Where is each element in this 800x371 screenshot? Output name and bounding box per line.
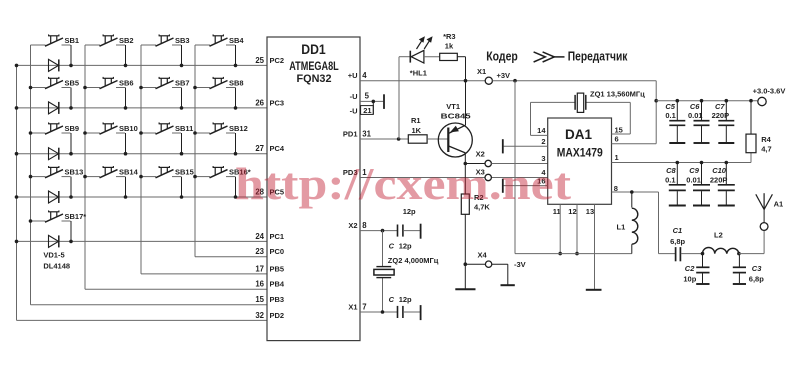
node: diode bus / row 1 junction bbox=[15, 64, 19, 68]
node: C9 on pin 1 rail bbox=[700, 161, 704, 165]
svg-text:220P: 220P bbox=[710, 175, 728, 184]
node: SB10 to row 3 junction bbox=[124, 152, 128, 156]
node: LED branch on PD1 wire bbox=[397, 137, 401, 141]
svg-text:6: 6 bbox=[615, 135, 619, 144]
pushbutton SB12 bbox=[195, 122, 248, 153]
svg-text:PD2: PD2 bbox=[270, 311, 285, 320]
svg-text:+U: +U bbox=[348, 71, 358, 80]
ground bar for -U pins bbox=[383, 94, 385, 109]
pushbutton SB6 bbox=[85, 77, 134, 108]
pin 25 PC2 labels bbox=[255, 56, 284, 65]
LED emission arrows bbox=[417, 39, 423, 49]
svg-text:X4: X4 bbox=[478, 250, 488, 259]
svg-text:1K: 1K bbox=[412, 126, 422, 135]
wire: scan row 2 (y=107.9) bbox=[17, 107, 268, 109]
svg-text:Передатчик: Передатчик bbox=[568, 49, 628, 64]
svg-text:SB7: SB7 bbox=[175, 79, 190, 88]
svg-text:+3.0-3.6V: +3.0-3.6V bbox=[753, 86, 786, 95]
svg-text:DD1: DD1 bbox=[301, 42, 326, 57]
wire: upper bypass rail bbox=[656, 100, 757, 102]
svg-text:ZQ2 4,000МГц: ZQ2 4,000МГц bbox=[388, 256, 439, 265]
label: C 12p (top) bbox=[389, 242, 412, 251]
svg-text:X2: X2 bbox=[348, 221, 357, 230]
svg-text:X1: X1 bbox=[477, 67, 486, 76]
wire: L2 to antenna bbox=[739, 231, 764, 254]
svg-text:SB5: SB5 bbox=[65, 79, 80, 88]
wire: bottom common rail bbox=[515, 253, 632, 255]
pin 24 PC1 labels bbox=[255, 232, 284, 241]
pin 32 PD2 labels bbox=[255, 311, 284, 320]
node: R3/collector branch on +U rail bbox=[464, 79, 468, 83]
node: SB2 to row 1 junction bbox=[124, 64, 128, 68]
pushbutton SB17 bbox=[31, 210, 87, 241]
node: pin 12 junction bbox=[575, 252, 579, 256]
pushbutton SB3 bbox=[141, 34, 190, 65]
node: ZQ2 bottom junction bbox=[381, 310, 385, 314]
capacitor C8 (0.1) bbox=[669, 163, 686, 205]
ground: C2 bbox=[696, 283, 709, 285]
svg-text:5: 5 bbox=[365, 92, 370, 101]
node: diode bus / row 2 junction bbox=[15, 106, 19, 110]
node: SB17 to column 1 junction bbox=[29, 219, 33, 223]
svg-text:17: 17 bbox=[255, 264, 264, 273]
svg-text:C8: C8 bbox=[666, 166, 676, 175]
resistor R1 bbox=[408, 135, 427, 143]
wire: scan row 5 (y=241.4) bbox=[17, 240, 268, 242]
wire: pin 6 to +3V rail bbox=[612, 81, 657, 144]
svg-text:12p: 12p bbox=[399, 295, 412, 304]
svg-text:SB10: SB10 bbox=[119, 124, 138, 133]
diode VD3 (DL4148) on row 3 bbox=[49, 148, 59, 160]
pin 23 PC0 labels bbox=[255, 247, 284, 256]
svg-text:15: 15 bbox=[255, 295, 264, 304]
node: C10 on pin 1 rail bbox=[725, 161, 729, 165]
node: ZQ2 top junction bbox=[381, 229, 385, 233]
resistor R2 bbox=[461, 194, 469, 214]
node: SB13 to column 1 junction bbox=[29, 175, 33, 179]
wire: pin 12 down to rail bbox=[576, 204, 578, 253]
wire: +3V rail X1 to DA1 corner bbox=[492, 80, 656, 82]
svg-text:-3V: -3V bbox=[514, 260, 526, 269]
wire: scan row 4 (y=197.0) bbox=[17, 196, 268, 198]
wire: +3V branch down to DA1 ground-side rail bbox=[514, 81, 516, 254]
ground bar at pin 2 bbox=[502, 139, 504, 153]
svg-text:R4: R4 bbox=[761, 135, 771, 144]
svg-text:PB4: PB4 bbox=[270, 280, 285, 289]
node: diode bus / row 3 junction bbox=[15, 152, 19, 156]
wire: X2 pin to load capacitor bbox=[360, 230, 397, 232]
svg-text:+3V: +3V bbox=[497, 71, 511, 80]
svg-text:C2: C2 bbox=[685, 264, 695, 273]
node: diode bus / row 4 junction bbox=[15, 195, 19, 199]
symbol: transmit arrow bbox=[534, 52, 565, 62]
diode VD5 (DL4148) on row 5 bbox=[49, 235, 59, 247]
wire: PD3 to X3 bbox=[360, 177, 485, 179]
ground: C10 bbox=[718, 205, 735, 207]
pushbutton SB10 bbox=[85, 122, 138, 153]
pushbutton SB11 bbox=[141, 122, 193, 153]
svg-text:PC3: PC3 bbox=[270, 98, 285, 107]
wire: pin 13 down to ground bbox=[594, 204, 596, 289]
wire: emitter chain down to R2 bbox=[464, 153, 466, 194]
LED *HL1 bbox=[399, 36, 440, 63]
IC DA1 MAX1479 body bbox=[548, 118, 612, 204]
ground: -3V return bbox=[501, 284, 515, 286]
node: SB11 to column 3 junction bbox=[139, 131, 143, 135]
svg-text:0.01: 0.01 bbox=[686, 175, 701, 184]
pin 17 PB5 labels bbox=[255, 264, 284, 273]
svg-text:SB1: SB1 bbox=[65, 36, 80, 45]
ground bar at pin 16 bbox=[502, 179, 504, 193]
svg-text:8: 8 bbox=[362, 221, 367, 230]
wire: X3 to DA1 pin 4 bbox=[491, 177, 547, 179]
wire: +U rail from pin 4 to X1 bbox=[360, 80, 485, 82]
resistor R4 bbox=[746, 134, 756, 153]
wire: R1 to VT1 base bbox=[427, 138, 448, 140]
svg-text:SB8: SB8 bbox=[229, 79, 244, 88]
pin 15 PB3 labels bbox=[255, 295, 284, 304]
svg-text:-U: -U bbox=[350, 107, 358, 116]
svg-text:C: C bbox=[389, 295, 395, 304]
svg-text:C: C bbox=[389, 242, 395, 251]
svg-text:VT1: VT1 bbox=[446, 102, 460, 111]
svg-text:DL4148: DL4148 bbox=[43, 262, 70, 271]
node: SB5 to column 1 junction bbox=[29, 86, 33, 90]
pushbutton SB13 bbox=[31, 166, 84, 197]
svg-text:12p: 12p bbox=[399, 242, 412, 251]
wire: X2 terminal to DA1 pin 3 bbox=[491, 163, 547, 165]
svg-text:BC845: BC845 bbox=[441, 112, 471, 121]
svg-text:PC2: PC2 bbox=[270, 56, 285, 65]
svg-text:7: 7 bbox=[362, 302, 366, 311]
svg-text:L1: L1 bbox=[617, 222, 626, 231]
svg-text:C9: C9 bbox=[689, 166, 699, 175]
ground: C9 bbox=[693, 205, 710, 207]
node: SB7 to column 3 junction bbox=[139, 86, 143, 90]
svg-text:C3: C3 bbox=[752, 264, 762, 273]
svg-text:SB9: SB9 bbox=[65, 124, 80, 133]
wire: key column 2 trunk (to PB4) bbox=[85, 45, 267, 289]
node: L1 tap on pin 8 wire bbox=[630, 190, 634, 194]
wire: X4 to -3V ground bbox=[492, 264, 508, 285]
svg-text:SB11: SB11 bbox=[175, 124, 193, 133]
node: pin 11 junction bbox=[558, 252, 562, 256]
svg-text:27: 27 bbox=[255, 144, 264, 153]
pin 7 X1 labels bbox=[348, 302, 366, 311]
wire: key column 4 trunk (to PC0) bbox=[195, 45, 267, 257]
svg-text:PC4: PC4 bbox=[270, 144, 285, 153]
svg-text:25: 25 bbox=[255, 56, 264, 65]
pushbutton SB8 bbox=[195, 77, 244, 108]
pin 1 PD3 labels bbox=[343, 168, 367, 177]
node: SB15 to row 4 junction bbox=[180, 195, 184, 199]
svg-text:4,7: 4,7 bbox=[761, 145, 771, 154]
svg-text:PD1: PD1 bbox=[343, 129, 358, 138]
svg-text:*HL1: *HL1 bbox=[410, 69, 427, 78]
wire: X4 tap to X4 terminal bbox=[465, 263, 485, 265]
wire: C1 to L2 node bbox=[681, 253, 703, 255]
svg-text:26: 26 bbox=[255, 98, 264, 107]
wire: ZQ2 vertical branch bbox=[382, 231, 384, 312]
inductor L2 bbox=[703, 248, 739, 254]
capacitor C5 (0.1) bbox=[669, 101, 685, 143]
terminal: antenna connector bbox=[760, 223, 768, 231]
svg-text:SB17*: SB17* bbox=[65, 212, 87, 221]
wire: LED branch vertical (to PD1) bbox=[398, 57, 400, 139]
node: SB14 to row 4 junction bbox=[124, 195, 128, 199]
pin 5 -U labels bbox=[350, 92, 370, 101]
diode VD1 (DL4148) on row 1 bbox=[49, 59, 59, 71]
svg-text:6,8p: 6,8p bbox=[670, 237, 685, 246]
svg-text:16: 16 bbox=[255, 280, 264, 289]
ground: pin 13 bbox=[586, 289, 602, 291]
wire: pin 11 down to rail bbox=[559, 204, 561, 253]
pin 4 +U labels bbox=[348, 71, 368, 80]
svg-text:PC1: PC1 bbox=[270, 232, 285, 241]
node: C8 on pin 1 rail bbox=[676, 161, 680, 165]
svg-text:SB6: SB6 bbox=[119, 79, 134, 88]
pushbutton SB16 bbox=[195, 166, 251, 197]
svg-text:23: 23 bbox=[255, 247, 264, 256]
wire: rail to C1 bbox=[659, 253, 676, 255]
svg-text:220P: 220P bbox=[712, 111, 730, 120]
svg-text:15: 15 bbox=[615, 126, 623, 135]
node: SB8 to row 2 junction bbox=[234, 106, 238, 110]
svg-text:A1: A1 bbox=[774, 199, 784, 208]
svg-text:L2: L2 bbox=[714, 230, 723, 239]
node: +3V branch to bottom rail bbox=[513, 79, 517, 83]
svg-text:DA1: DA1 bbox=[565, 127, 592, 142]
node: pins 5/21 tie bbox=[372, 100, 376, 104]
svg-text:X1: X1 bbox=[348, 302, 357, 311]
node: SB11 to row 3 junction bbox=[180, 152, 184, 156]
wire: X2 tap to X2 terminal bbox=[465, 163, 485, 165]
node: SB9 to row 3 junction bbox=[69, 152, 73, 156]
svg-text:14: 14 bbox=[537, 126, 546, 135]
node: bypass rail branch on +3V drop bbox=[654, 99, 658, 103]
wire: scan row 3 (y=153.7) bbox=[17, 153, 268, 155]
svg-text:VD1-5: VD1-5 bbox=[43, 251, 64, 260]
capacitor C3 (6,8p) bbox=[733, 254, 746, 284]
capacitor C9 (0.01) bbox=[693, 163, 710, 205]
svg-text:SB13: SB13 bbox=[65, 168, 84, 177]
wire: PD1 to R1 bbox=[360, 138, 408, 140]
wire: pin 15 to ZQ1 right bbox=[586, 102, 630, 134]
svg-text:C1: C1 bbox=[673, 226, 683, 235]
terminal +3.0-3.6V bbox=[758, 97, 766, 105]
node: L2 left / C2 bbox=[701, 252, 705, 256]
node: diode bus / row 5 junction bbox=[15, 240, 19, 244]
node: SB6 to row 2 junction bbox=[124, 106, 128, 110]
terminal X4 bbox=[485, 261, 491, 267]
pushbutton SB4 bbox=[195, 34, 244, 65]
diode VD4 (DL4148) on row 4 bbox=[49, 191, 59, 203]
pin 21 -U boxed label bbox=[350, 106, 374, 116]
capacitor C7 (220P) bbox=[718, 101, 734, 143]
wire: pin 1 rail to R4 bbox=[612, 153, 752, 163]
svg-text:PB3: PB3 bbox=[270, 295, 285, 304]
svg-text:-U: -U bbox=[350, 92, 358, 101]
wire: pin 14 to ZQ1 left bbox=[531, 102, 576, 135]
svg-text:0.1: 0.1 bbox=[665, 175, 675, 184]
IC DD1 ATMEGA8L body bbox=[267, 37, 360, 341]
ground bar for top 12p cap bbox=[420, 224, 422, 239]
capacitor C1 (6,8p) bbox=[676, 247, 681, 261]
svg-text:2: 2 bbox=[541, 137, 545, 146]
pin 16 PB4 labels bbox=[255, 280, 285, 289]
capacitor C10 (220P) bbox=[718, 163, 735, 205]
svg-text:FQN32: FQN32 bbox=[297, 73, 332, 85]
wire: R3 to +U rail / VT1 collector bbox=[457, 57, 465, 81]
svg-text:1: 1 bbox=[615, 153, 619, 162]
node: SB9 to column 1 junction bbox=[29, 131, 33, 135]
svg-text:PB5: PB5 bbox=[270, 264, 285, 273]
ground: C6 bbox=[694, 142, 710, 144]
svg-text:*R3: *R3 bbox=[443, 32, 456, 41]
node: SB13 to row 4 junction bbox=[69, 195, 73, 199]
svg-text:ZQ1 13,560МГц: ZQ1 13,560МГц bbox=[590, 90, 645, 99]
node: SB15 to column 3 junction bbox=[139, 175, 143, 179]
transistor VT1 BC845 bbox=[438, 81, 472, 157]
wire: key column 3 trunk (to PB5) bbox=[141, 45, 267, 274]
wire: key column 1 trunk (to PB3) bbox=[31, 45, 268, 305]
wire: R4 top lead bbox=[750, 101, 752, 134]
wire: pin 21 tie-down bbox=[372, 101, 374, 114]
label: C 12p (bottom) bbox=[389, 295, 412, 304]
node: SB3 to row 1 junction bbox=[180, 64, 184, 68]
wire: pin 5 -U to ground bar bbox=[360, 100, 383, 102]
terminal X3 bbox=[485, 174, 491, 180]
svg-text:Кодер: Кодер bbox=[486, 49, 518, 64]
terminal X2 bbox=[485, 160, 491, 166]
capacitor C (12p) top bbox=[398, 225, 420, 237]
node: X2 tap bbox=[464, 162, 468, 166]
svg-text:C10: C10 bbox=[712, 166, 727, 175]
pushbutton SB2 bbox=[85, 34, 134, 65]
svg-text:6,8p: 6,8p bbox=[749, 274, 764, 283]
node: C6 on bypass rail bbox=[700, 99, 704, 103]
svg-text:SB3: SB3 bbox=[175, 36, 190, 45]
ground: C3 bbox=[733, 283, 746, 285]
pin 28 PC5 labels bbox=[255, 187, 284, 196]
svg-text:SB12: SB12 bbox=[229, 124, 248, 133]
pin 27 PC4 labels bbox=[255, 144, 285, 153]
svg-text:1k: 1k bbox=[445, 42, 454, 51]
node: SB10 to column 2 junction bbox=[83, 131, 87, 135]
ground bar for bottom 12p cap bbox=[420, 305, 422, 320]
ground: emitter chain bbox=[455, 288, 475, 290]
node: SB14 to column 2 junction bbox=[83, 175, 87, 179]
wire: scan row 1 (y=65.4) bbox=[17, 64, 268, 66]
svg-text:ATMEGA8L: ATMEGA8L bbox=[289, 59, 339, 73]
wire: diode bus trunk (rows common, to pin 32 PD2) bbox=[17, 65, 268, 320]
svg-text:10p: 10p bbox=[683, 274, 696, 283]
capacitor C6 (0.01) bbox=[694, 101, 710, 143]
wire: pin 2 to ground bar bbox=[504, 145, 548, 147]
ground: C8 bbox=[669, 205, 686, 207]
node: SB12 to row 3 junction bbox=[234, 152, 238, 156]
pushbutton SB7 bbox=[141, 77, 190, 108]
node: SB16 to row 4 junction bbox=[234, 195, 238, 199]
svg-text:SB14: SB14 bbox=[119, 168, 139, 177]
svg-text:R1: R1 bbox=[411, 116, 421, 125]
node: L2 right / C3 bbox=[737, 252, 741, 256]
node: SB17 to row 5 junction bbox=[69, 240, 73, 244]
wire: R2 to ground bbox=[464, 214, 466, 289]
wire: X1 pin to load capacitor bbox=[360, 311, 397, 313]
node: SB4 to row 1 junction bbox=[234, 64, 238, 68]
resistor R3 bbox=[440, 53, 458, 60]
node: SB12 to column 4 junction bbox=[193, 131, 197, 135]
crystal ZQ2 4.000MHz bbox=[374, 267, 394, 278]
node: SB16 to column 4 junction bbox=[193, 175, 197, 179]
antenna A1 bbox=[756, 193, 773, 222]
ground: C7 bbox=[718, 142, 734, 144]
terminal X1 bbox=[485, 77, 492, 84]
svg-text:PC0: PC0 bbox=[270, 247, 285, 256]
wire: pin 8 to matching network bbox=[612, 192, 659, 254]
svg-text:31: 31 bbox=[362, 129, 371, 138]
node: X4 tap bbox=[464, 262, 468, 266]
svg-text:21: 21 bbox=[363, 106, 371, 115]
wire: pin 16 to ground bar bbox=[504, 185, 548, 187]
capacitor C (12p) bottom bbox=[398, 306, 420, 318]
svg-text:0.1: 0.1 bbox=[665, 111, 675, 120]
diode VD2 (DL4148) on row 2 bbox=[49, 102, 59, 114]
pushbutton SB15 bbox=[141, 166, 194, 197]
node: C7 on bypass rail bbox=[725, 99, 729, 103]
svg-text:13: 13 bbox=[586, 207, 594, 216]
node: C5 on bypass rail bbox=[676, 99, 680, 103]
node: SB7 to row 2 junction bbox=[180, 106, 184, 110]
pushbutton SB9 bbox=[31, 122, 80, 153]
node: SB6 to column 2 junction bbox=[83, 86, 87, 90]
pushbutton SB14 bbox=[85, 166, 139, 197]
svg-text:http://cxem.net: http://cxem.net bbox=[235, 158, 572, 209]
node: R4 on bypass rail bbox=[749, 99, 753, 103]
inductor L1 bbox=[632, 192, 638, 254]
crystal ZQ1 13.560MHz bbox=[575, 93, 586, 112]
svg-text:SB15: SB15 bbox=[175, 168, 194, 177]
svg-text:32: 32 bbox=[255, 311, 264, 320]
pin 31 PD1 labels bbox=[343, 129, 372, 138]
node: SB5 to row 2 junction bbox=[69, 106, 73, 110]
svg-text:0.01: 0.01 bbox=[688, 111, 703, 120]
node: SB1 to row 1 junction bbox=[69, 64, 73, 68]
ground: C5 bbox=[669, 142, 685, 144]
pushbutton SB5 bbox=[31, 77, 80, 108]
svg-text:4: 4 bbox=[362, 71, 367, 80]
svg-text:SB4: SB4 bbox=[229, 36, 244, 45]
node: SB8 to column 4 junction bbox=[193, 86, 197, 90]
pushbutton SB1 bbox=[31, 34, 80, 65]
capacitor C2 (10p) bbox=[696, 254, 709, 284]
pin 26 PC3 labels bbox=[255, 98, 284, 107]
svg-text:SB2: SB2 bbox=[119, 36, 134, 45]
pin 8 X2 labels bbox=[348, 221, 367, 230]
svg-text:24: 24 bbox=[255, 232, 264, 241]
